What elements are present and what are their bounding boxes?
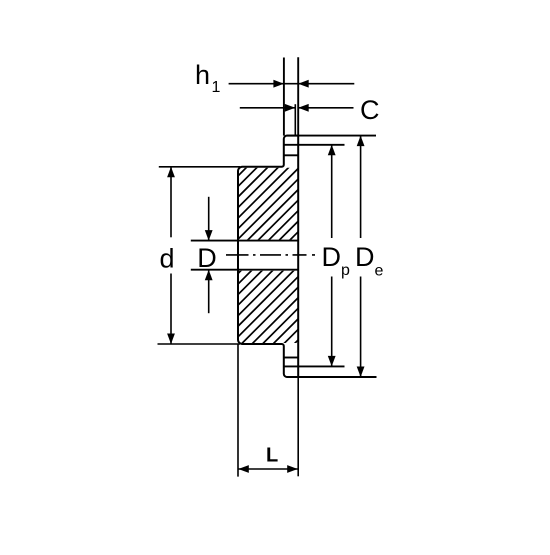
De dimension line (lower segment): [360, 277, 362, 378]
svg-text:L: L: [266, 444, 278, 466]
De dimension line (upper segment): [360, 136, 362, 238]
h1 dimension line: [229, 83, 355, 85]
bore bottom line (with left extension for D): [191, 269, 299, 271]
C arrow left (tip at right line): [298, 104, 309, 112]
d dimension line (lower segment): [170, 274, 172, 345]
svg-text:D: D: [355, 242, 375, 272]
vertical extension line right (hub right face, up): [297, 57, 299, 135]
L right extension line: [297, 377, 299, 476]
C dimension line left part: [240, 107, 295, 109]
Dp dimension line (lower segment): [331, 277, 333, 367]
h1 arrow left (tip at right line): [298, 80, 309, 88]
L arrow left: [238, 465, 249, 473]
hub / plate right face: [297, 136, 299, 377]
De arrow down: [357, 367, 365, 378]
L dimension line: [238, 468, 297, 470]
Dp top extension line: [284, 144, 345, 146]
L arrow right: [287, 465, 298, 473]
d dimension line (upper segment): [170, 167, 172, 238]
C arrow right (tip at middle line): [285, 104, 296, 112]
tooth profile line lower: [284, 357, 298, 359]
bore top line (with left extension for D): [191, 240, 299, 242]
C dimension line right part: [298, 107, 353, 109]
svg-text:h: h: [195, 60, 210, 90]
svg-text:d: d: [160, 244, 175, 274]
D down arrow line: [208, 197, 210, 241]
d bottom extension line: [158, 343, 241, 345]
D up arrowhead: [205, 270, 213, 281]
vertical extension line left (tooth left edge, up): [283, 58, 285, 136]
svg-text:p: p: [341, 262, 350, 279]
sprocket body outline (hub left face, top/bottom, teeth): [238, 136, 298, 377]
centerline (dash-dot): [226, 254, 317, 256]
De bottom extension line (tooth bottom): [287, 376, 377, 378]
Dp bottom extension line: [284, 365, 345, 367]
hatching of hub cross-section (lower half): [238, 214, 298, 411]
d arrow down: [167, 334, 175, 345]
Dp arrow up: [328, 145, 336, 156]
tooth profile line upper: [284, 154, 298, 156]
svg-text:D: D: [322, 242, 342, 272]
Dp dimension line (upper segment): [331, 145, 333, 238]
D up arrow line: [208, 270, 210, 314]
svg-text:1: 1: [212, 79, 221, 96]
hatching of hub cross-section (upper half): [238, 116, 298, 292]
svg-text:C: C: [360, 95, 380, 125]
d arrow up: [167, 167, 175, 178]
svg-text:D: D: [197, 243, 217, 273]
D down arrowhead: [205, 230, 213, 241]
Dp arrow down: [328, 356, 336, 367]
svg-text:e: e: [375, 262, 384, 279]
De arrow up: [357, 136, 365, 147]
d top extension line: [159, 166, 240, 168]
L left extension line: [237, 344, 239, 477]
short middle line for C: [294, 104, 296, 135]
De top extension line (tooth top): [287, 135, 377, 137]
h1 arrow right (tip at left tooth line): [273, 80, 284, 88]
